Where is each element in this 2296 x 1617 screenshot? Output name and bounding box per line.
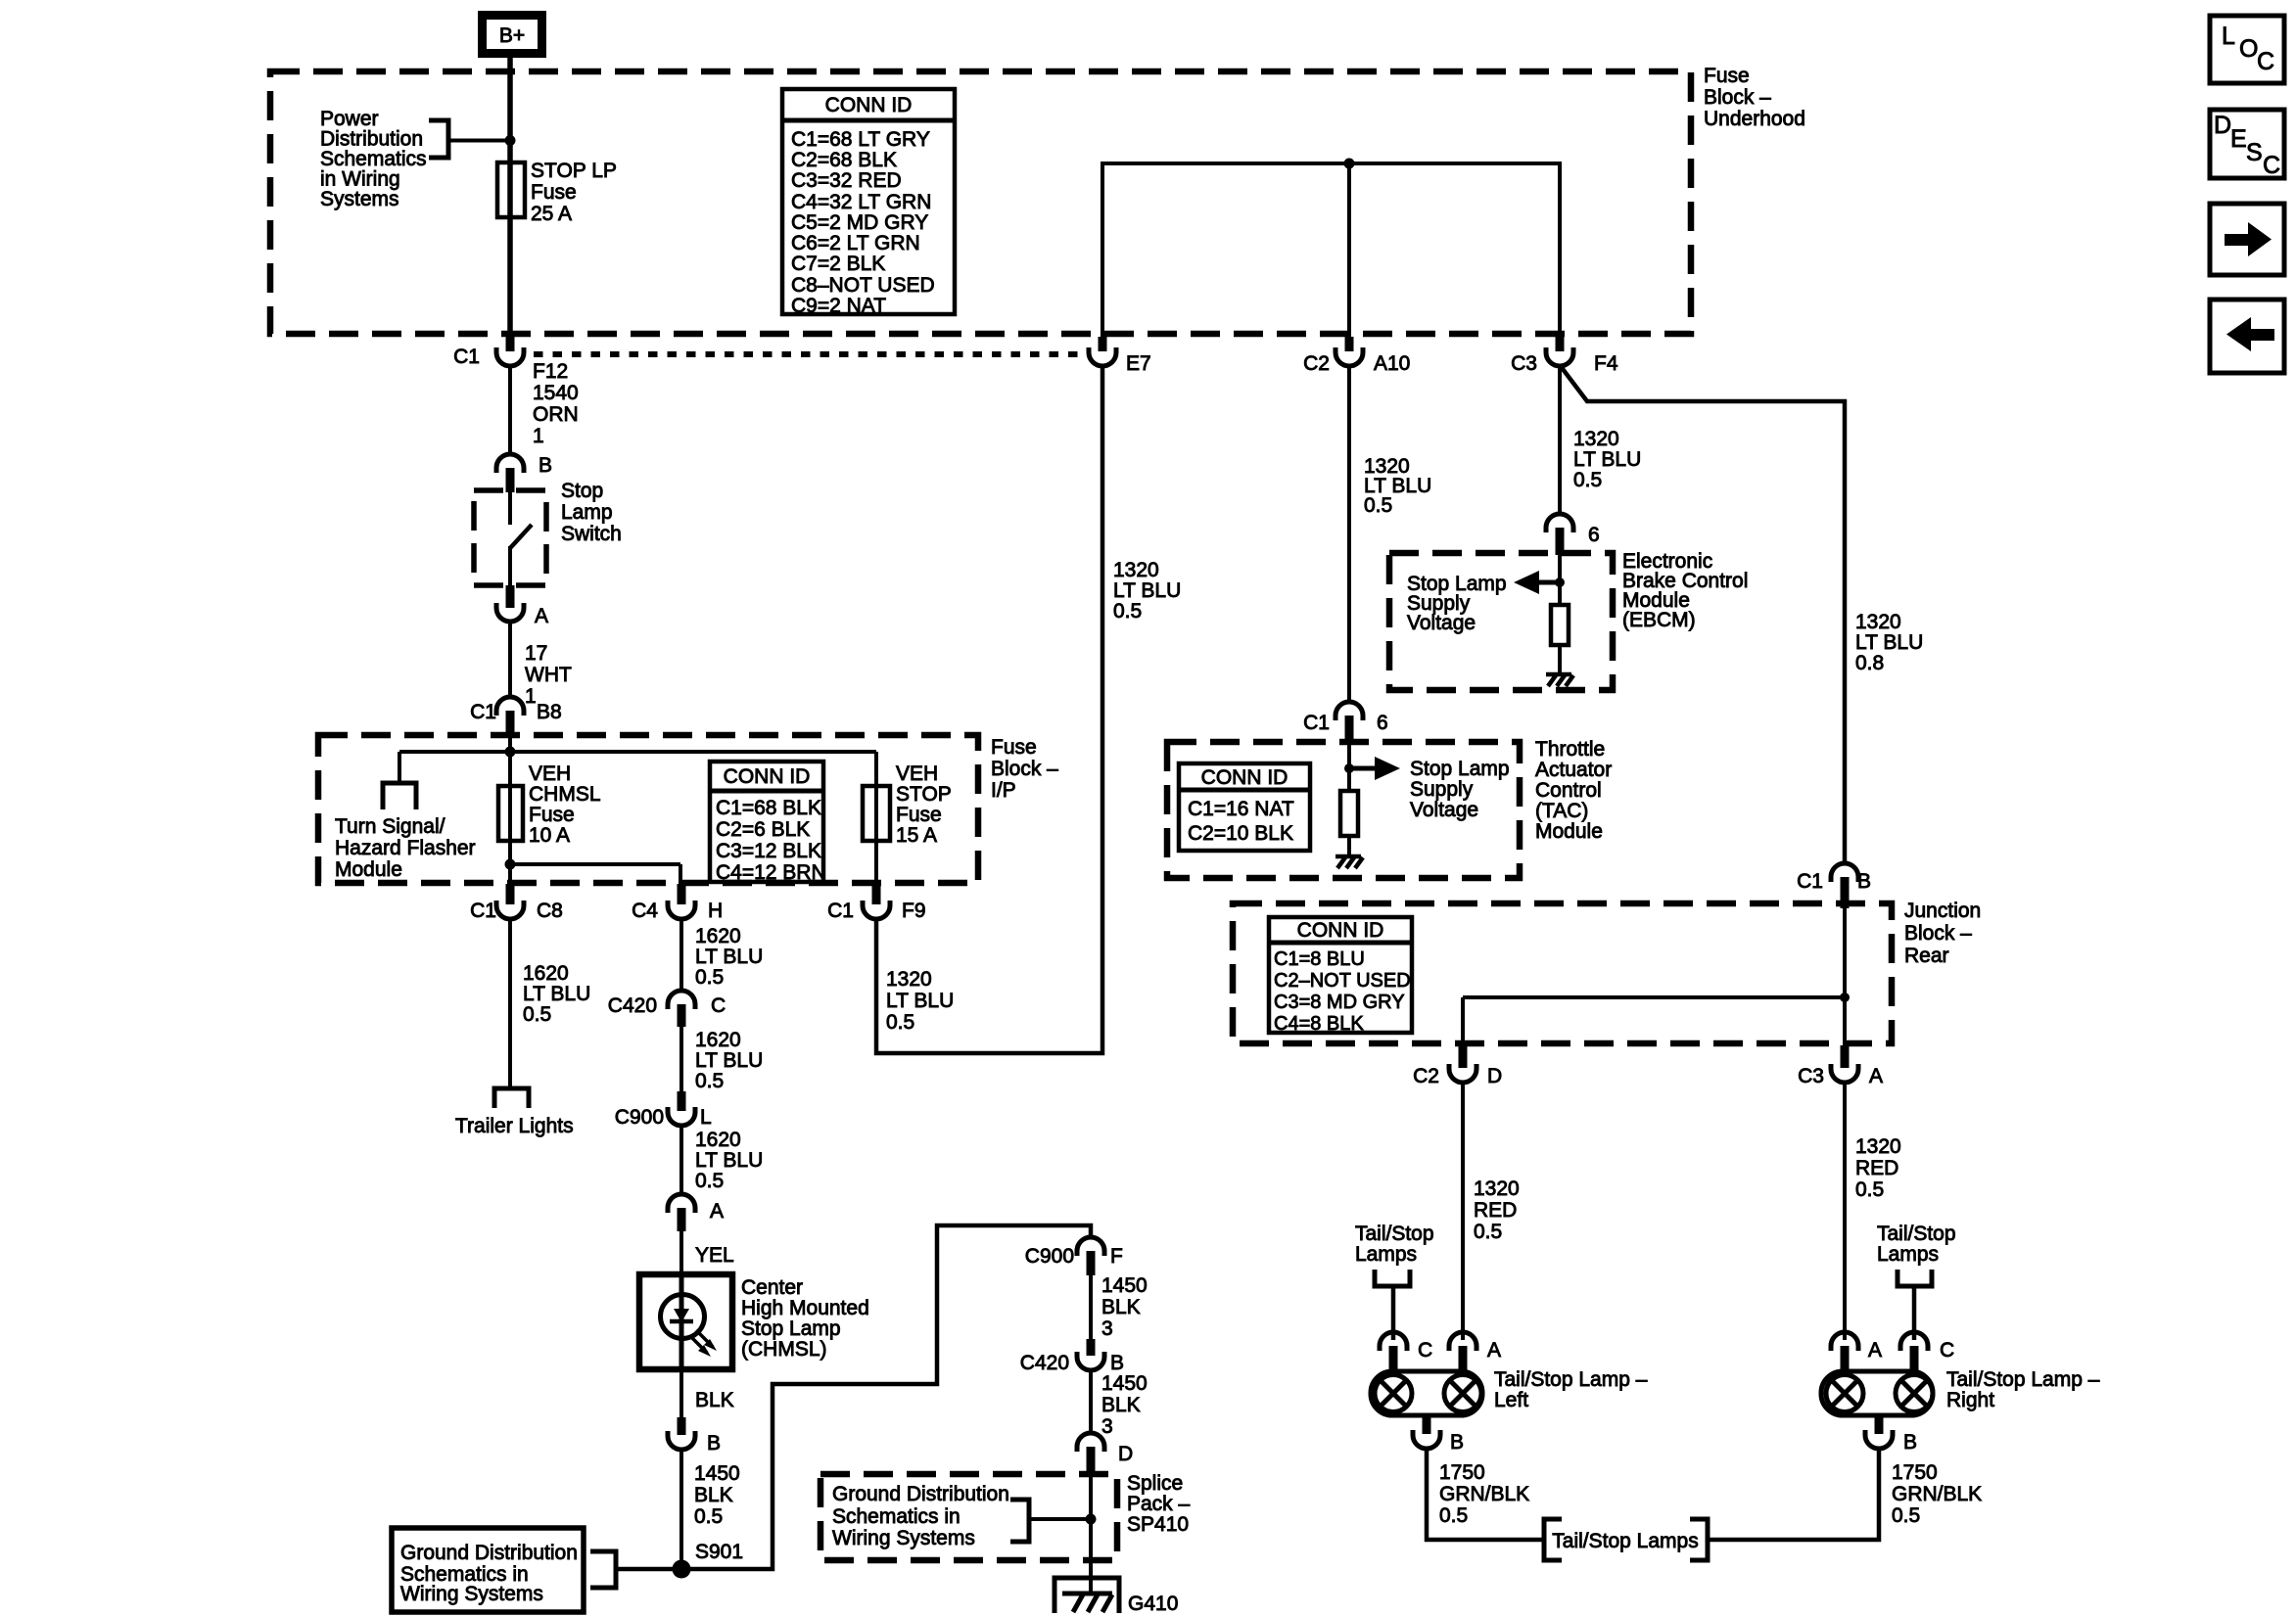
svg-text:Block –: Block – — [1704, 86, 1771, 109]
label G410 — [1128, 1593, 1178, 1615]
fuse STOP LP 25A — [497, 162, 525, 217]
svg-text:C1: C1 — [470, 701, 496, 723]
svg-text:F9: F9 — [902, 900, 926, 922]
svg-text:C1: C1 — [470, 900, 496, 922]
node junction dot below CHMSL fuse — [505, 859, 516, 870]
svg-text:LT BLU: LT BLU — [1113, 579, 1181, 602]
label Power Distribution Schematics in Wiring Systems — [320, 108, 427, 210]
svg-text:C900: C900 — [615, 1106, 664, 1129]
svg-text:0.5: 0.5 — [886, 1011, 914, 1034]
svg-text:RED: RED — [1474, 1199, 1517, 1222]
label Electronic Brake Control Module EBCM — [1622, 550, 1748, 631]
svg-text:1750: 1750 — [1892, 1461, 1938, 1484]
svg-text:C1: C1 — [453, 346, 480, 368]
svg-text:A: A — [1487, 1339, 1501, 1362]
tail stop lamps bracket right — [1898, 1270, 1932, 1340]
svg-text:Switch: Switch — [561, 523, 622, 545]
label Throttle Actuator Control TAC Module — [1535, 738, 1612, 843]
svg-text:ORN: ORN — [533, 403, 579, 426]
connector B right lamp — [1865, 1415, 1917, 1454]
svg-text:C2: C2 — [1413, 1065, 1439, 1087]
svg-text:C4=32 LT GRN: C4=32 LT GRN — [791, 191, 931, 213]
svg-text:BLK: BLK — [694, 1484, 733, 1506]
svg-text:C1: C1 — [1303, 712, 1330, 734]
svg-text:0.5: 0.5 — [695, 1070, 724, 1092]
svg-text:C4=12 BRN: C4=12 BRN — [716, 861, 826, 884]
svg-text:1540: 1540 — [533, 382, 579, 404]
svg-text:0.5: 0.5 — [1364, 494, 1392, 517]
svg-text:C5=2 MD GRY: C5=2 MD GRY — [791, 211, 928, 234]
wire junction internal — [1463, 908, 1845, 1043]
svg-text:F: F — [1110, 1245, 1123, 1268]
node splice S901 — [673, 1560, 691, 1579]
svg-text:B: B — [1450, 1431, 1464, 1454]
svg-text:Voltage: Voltage — [1407, 612, 1476, 634]
fuse block underhood dashed box — [270, 71, 1691, 334]
resistor EBCM — [1551, 605, 1569, 645]
svg-text:1620: 1620 — [695, 925, 741, 947]
svg-text:Splice: Splice — [1127, 1472, 1183, 1495]
svg-text:6: 6 — [1377, 712, 1388, 734]
tail stop lamp right — [1821, 1371, 1933, 1415]
svg-text:STOP: STOP — [896, 783, 952, 806]
label wire 1750 GRN BLK 0.5 right — [1892, 1461, 1982, 1527]
power distribution reference bracket — [429, 120, 448, 158]
svg-text:C2: C2 — [1303, 352, 1330, 375]
svg-text:1: 1 — [525, 685, 537, 708]
svg-text:15 A: 15 A — [896, 824, 937, 847]
wire TAC internal — [1347, 744, 1351, 791]
svg-text:B: B — [1903, 1431, 1917, 1454]
arrow stop lamp supply voltage EBCM — [1514, 571, 1560, 594]
svg-text:D: D — [2214, 112, 2231, 139]
CHMSL lamp box — [639, 1274, 732, 1369]
svg-text:Lamp: Lamp — [561, 501, 613, 524]
label Stop Lamp Supply Voltage EBCM — [1407, 573, 1507, 634]
svg-text:(EBCM): (EBCM) — [1622, 609, 1696, 631]
label wire 1320 RED 0.5 left — [1474, 1178, 1520, 1243]
label wire F12 1540 ORN 1 — [533, 360, 579, 447]
svg-text:Tail/Stop Lamps: Tail/Stop Lamps — [1552, 1530, 1698, 1552]
node B+ battery terminal box — [483, 16, 542, 54]
svg-text:CONN ID: CONN ID — [825, 94, 913, 116]
connector B stop lamp switch — [496, 454, 552, 492]
svg-text:LT BLU: LT BLU — [1573, 448, 1641, 471]
fuse VEH CHMSL 10A — [498, 786, 523, 841]
svg-text:C3=8 MD GRY: C3=8 MD GRY — [1274, 992, 1405, 1013]
ground EBCM — [1546, 674, 1573, 686]
svg-text:LT BLU: LT BLU — [886, 990, 954, 1012]
svg-text:Pack –: Pack – — [1127, 1493, 1191, 1515]
svg-text:Turn Signal/: Turn Signal/ — [335, 815, 445, 838]
svg-text:Block –: Block – — [991, 758, 1058, 780]
svg-text:C900: C900 — [1025, 1245, 1074, 1268]
svg-text:Wiring Systems: Wiring Systems — [832, 1527, 975, 1549]
svg-text:LT BLU: LT BLU — [523, 983, 590, 1005]
svg-text:C1: C1 — [1797, 870, 1823, 893]
svg-text:B: B — [1857, 870, 1871, 893]
svg-text:(TAC): (TAC) — [1535, 800, 1588, 822]
svg-text:Wiring Systems: Wiring Systems — [400, 1583, 543, 1605]
label Tail Stop Lamp Left — [1494, 1368, 1648, 1411]
svg-text:B8: B8 — [537, 701, 562, 723]
connector C2 A10 — [1303, 337, 1410, 375]
svg-text:C: C — [711, 994, 726, 1017]
svg-text:Control: Control — [1535, 779, 1602, 802]
svg-text:1320: 1320 — [1113, 559, 1159, 581]
nav box LOC — [2210, 16, 2284, 83]
svg-text:Tail/Stop: Tail/Stop — [1877, 1223, 1956, 1245]
wire C1 to stop lamp switch — [508, 365, 512, 456]
arrow stop lamp supply voltage TAC — [1349, 757, 1400, 780]
svg-text:LT BLU: LT BLU — [1855, 631, 1923, 654]
svg-text:C420: C420 — [608, 994, 657, 1017]
wire CHMSL to B — [679, 1369, 683, 1417]
svg-text:C2=6 BLK: C2=6 BLK — [716, 818, 810, 841]
connector C900 F — [1025, 1237, 1123, 1275]
svg-text:B: B — [539, 454, 552, 477]
svg-text:Underhood: Underhood — [1704, 108, 1805, 130]
label wire 1450 BLK 3 b — [1101, 1372, 1148, 1438]
connector C right lamp — [1900, 1332, 1954, 1373]
fuse VEH STOP 15A — [863, 786, 890, 841]
wire label box to right lamp B — [1708, 1449, 1879, 1540]
svg-text:I/P: I/P — [991, 779, 1016, 802]
label Tail Stop Lamp Right — [1946, 1368, 2100, 1411]
svg-text:B: B — [707, 1432, 721, 1455]
label Tail Stop Lamps left — [1355, 1223, 1434, 1266]
svg-text:0.5: 0.5 — [695, 1170, 724, 1192]
svg-text:B: B — [1110, 1352, 1124, 1374]
wire underhood internal bus — [1102, 163, 1560, 337]
svg-text:L: L — [700, 1106, 712, 1129]
svg-text:1320: 1320 — [1474, 1178, 1520, 1200]
svg-text:Stop: Stop — [561, 480, 603, 502]
svg-text:C1=68 LT GRY: C1=68 LT GRY — [791, 128, 930, 151]
svg-text:GRN/BLK: GRN/BLK — [1439, 1483, 1529, 1505]
wire H to C420 — [679, 919, 683, 993]
svg-text:Actuator: Actuator — [1535, 759, 1612, 781]
svg-text:S901: S901 — [695, 1541, 743, 1563]
svg-text:0.5: 0.5 — [523, 1003, 551, 1026]
wire B to S901 — [679, 1450, 683, 1569]
nav box arrow left — [2210, 300, 2284, 373]
label STOP LP Fuse 25 A — [531, 160, 617, 225]
ground distribution reference box — [392, 1528, 584, 1612]
svg-text:GRN/BLK: GRN/BLK — [1892, 1483, 1982, 1505]
tail stop lamps bracket left — [1375, 1270, 1410, 1340]
svg-text:0.5: 0.5 — [1474, 1221, 1502, 1243]
svg-text:A: A — [710, 1200, 724, 1223]
label wire 1320 LT BLU 0.5 A10 — [1364, 455, 1431, 517]
connector C3 A — [1798, 1045, 1883, 1087]
nav box DESC — [2210, 110, 2284, 179]
wire bracket to S901 — [616, 1567, 673, 1572]
wire D to left lamp — [1461, 1083, 1465, 1340]
label Fuse Block - I/P — [991, 736, 1058, 802]
svg-text:Fuse: Fuse — [896, 804, 942, 826]
ground distribution bracket splice — [1010, 1500, 1029, 1542]
wire resistor to ground EBCM — [1558, 645, 1562, 673]
label wire 1450 BLK 0.5 — [694, 1462, 740, 1528]
svg-text:C2=10 BLK: C2=10 BLK — [1188, 822, 1293, 845]
wire switch to fuse block IP — [508, 622, 512, 697]
svg-text:LT BLU: LT BLU — [695, 1149, 763, 1172]
wire A to CHMSL lamp — [679, 1231, 683, 1274]
wire left lamp B to label box — [1427, 1449, 1544, 1540]
wire CHMSL fuse to branch — [510, 864, 680, 885]
svg-text:CONN ID: CONN ID — [1297, 919, 1384, 942]
connector B left lamp — [1413, 1415, 1464, 1454]
svg-text:BLK: BLK — [1101, 1296, 1141, 1318]
connector C1 F12 — [453, 337, 524, 368]
svg-text:Fuse: Fuse — [529, 804, 575, 826]
svg-text:Systems: Systems — [320, 188, 399, 210]
wire A10 to TAC — [1347, 366, 1351, 702]
connector E7 — [1089, 337, 1151, 375]
label S901 — [695, 1541, 743, 1563]
wire C420 B to D — [1089, 1370, 1093, 1434]
svg-text:Tail/Stop: Tail/Stop — [1355, 1223, 1434, 1245]
label wire 17 WHT 1 — [525, 642, 572, 708]
connector C1 B8 — [470, 697, 562, 737]
svg-text:A10: A10 — [1374, 352, 1410, 375]
label Center High Mounted Stop Lamp CHMSL — [741, 1276, 869, 1361]
connector C420 B — [1020, 1339, 1124, 1374]
svg-text:CHMSL: CHMSL — [529, 783, 601, 806]
svg-text:10 A: 10 A — [529, 824, 570, 847]
svg-text:C7=2 BLK: C7=2 BLK — [791, 253, 885, 275]
svg-text:CONN ID: CONN ID — [724, 765, 811, 788]
svg-text:C3: C3 — [1511, 352, 1537, 375]
svg-text:0.5: 0.5 — [695, 966, 724, 989]
svg-text:C2=68 BLK: C2=68 BLK — [791, 149, 897, 171]
svg-text:3: 3 — [1101, 1317, 1113, 1340]
svg-text:YEL: YEL — [695, 1244, 734, 1267]
node dot EBCM — [1555, 577, 1565, 587]
wire EBCM internal — [1558, 554, 1562, 605]
svg-text:F12: F12 — [533, 360, 568, 383]
connector C1 B junction — [1797, 863, 1871, 908]
svg-text:Lamps: Lamps — [1877, 1243, 1939, 1266]
svg-text:0.5: 0.5 — [694, 1505, 723, 1528]
svg-text:C9=2 NAT: C9=2 NAT — [791, 295, 886, 317]
label wire 1320 RED 0.5 right — [1855, 1135, 1901, 1201]
svg-text:Lamps: Lamps — [1355, 1243, 1417, 1266]
svg-text:Right: Right — [1946, 1389, 1994, 1411]
svg-text:C1=16 NAT: C1=16 NAT — [1188, 798, 1294, 820]
svg-text:Ground Distribution: Ground Distribution — [400, 1542, 578, 1564]
svg-text:Module: Module — [335, 858, 402, 881]
wire F4 branch to junction block — [1560, 365, 1845, 863]
connector A left lamp — [1449, 1332, 1501, 1373]
wire F4 to EBCM — [1558, 366, 1562, 514]
svg-text:C3: C3 — [1798, 1065, 1824, 1087]
svg-text:C3=12 BLK: C3=12 BLK — [716, 840, 821, 862]
svg-text:1320: 1320 — [1573, 428, 1619, 450]
svg-text:Throttle: Throttle — [1535, 738, 1605, 761]
svg-text:LT BLU: LT BLU — [695, 946, 763, 968]
svg-text:F4: F4 — [1594, 352, 1618, 375]
svg-text:C2–NOT USED: C2–NOT USED — [1274, 970, 1411, 992]
label wire 1320 LT BLU 0.5 F4 — [1573, 428, 1641, 491]
wire dotted connector alignment line — [534, 351, 1089, 357]
splice pack dashed box — [820, 1474, 1117, 1560]
svg-text:C3=32 RED: C3=32 RED — [791, 169, 902, 192]
svg-text:Stop Lamp: Stop Lamp — [1410, 758, 1510, 780]
svg-text:C1: C1 — [827, 900, 854, 922]
svg-text:BLK: BLK — [1101, 1394, 1141, 1416]
svg-text:1620: 1620 — [695, 1029, 741, 1051]
node splice dot SP410 — [1086, 1514, 1097, 1525]
connector C4 H — [632, 884, 723, 922]
svg-text:O: O — [2239, 35, 2258, 63]
svg-text:C8–NOT USED: C8–NOT USED — [791, 274, 935, 297]
ground G410 — [1054, 1578, 1119, 1613]
label Junction Block - Rear — [1904, 900, 1981, 967]
svg-text:Stop Lamp: Stop Lamp — [741, 1317, 841, 1340]
connector 6 EBCM — [1546, 514, 1600, 555]
conn id table junction — [1269, 917, 1412, 1035]
connector C420 C — [608, 991, 726, 1027]
wire S901 to C900 F — [690, 1225, 1091, 1569]
wire resistor to ground TAC — [1347, 836, 1351, 855]
wire F9 to E7 loop — [876, 366, 1102, 1053]
wire B+ to fuse — [507, 58, 513, 337]
label wire 1450 BLK 3 a — [1101, 1274, 1148, 1340]
wire to power distribution bracket — [448, 139, 510, 143]
trailer lights bracket — [494, 1088, 529, 1108]
label Stop Lamp Supply Voltage TAC — [1410, 758, 1510, 821]
label wire 1320 LT BLU 0.8 — [1855, 611, 1923, 674]
connector C1 F9 — [827, 884, 925, 922]
svg-text:1620: 1620 — [695, 1129, 741, 1151]
label Tail Stop Lamps right — [1877, 1223, 1956, 1266]
label Fuse Block - Underhood — [1704, 65, 1805, 130]
wire D to G410 — [1089, 1476, 1093, 1594]
svg-text:LT BLU: LT BLU — [695, 1049, 763, 1072]
svg-text:WHT: WHT — [525, 664, 572, 686]
label wire 1620 LT BLU 0.5 trailer — [523, 962, 590, 1026]
svg-text:1: 1 — [533, 425, 544, 447]
svg-text:25 A: 25 A — [531, 203, 572, 225]
svg-text:1450: 1450 — [1101, 1274, 1148, 1297]
label wire 1320 LT BLU 0.5 F9 — [886, 968, 954, 1034]
connector C1 C8 — [470, 884, 563, 922]
wire A to right lamp — [1843, 1083, 1847, 1340]
svg-text:SP410: SP410 — [1127, 1513, 1189, 1536]
wire F to C420 B — [1089, 1275, 1093, 1341]
wire C420 to C900 — [679, 1027, 683, 1095]
connector D splice — [1077, 1433, 1133, 1476]
svg-text:RED: RED — [1855, 1157, 1898, 1179]
svg-text:Module: Module — [1535, 820, 1603, 843]
wire C8 to trailer lights — [508, 919, 512, 1086]
svg-text:E: E — [2230, 125, 2247, 153]
svg-text:BLK: BLK — [695, 1389, 734, 1411]
node junction dot on B+ wire — [505, 135, 516, 146]
wire IP internal bus — [399, 737, 876, 885]
svg-text:0.5: 0.5 — [1439, 1504, 1468, 1527]
ground TAC — [1335, 856, 1363, 868]
svg-text:17: 17 — [525, 642, 547, 665]
svg-text:Fuse: Fuse — [1704, 65, 1750, 87]
svg-text:G410: G410 — [1128, 1593, 1178, 1615]
connector A stop lamp switch — [496, 585, 548, 627]
conn id table TAC — [1179, 763, 1310, 851]
label wire 1320 LT BLU 0.5 E7 — [1113, 559, 1181, 623]
svg-text:C8: C8 — [537, 900, 563, 922]
TAC dashed box — [1167, 742, 1520, 878]
EBCM dashed box — [1389, 553, 1613, 690]
label VEH CHMSL Fuse 10 A — [529, 762, 601, 847]
label Stop Lamp Switch — [561, 480, 622, 545]
conn id table IP — [710, 762, 826, 884]
node dot TAC — [1344, 763, 1354, 773]
connector B CHMSL — [668, 1417, 721, 1455]
nav box arrow right — [2210, 204, 2284, 275]
svg-text:(CHMSL): (CHMSL) — [741, 1338, 827, 1361]
node dot junction — [1840, 993, 1850, 1002]
svg-text:C: C — [1418, 1339, 1432, 1362]
svg-text:0.5: 0.5 — [1113, 600, 1142, 623]
turn signal module bracket — [383, 783, 416, 809]
label wire YEL — [695, 1244, 734, 1267]
label wire BLK — [695, 1389, 734, 1411]
svg-text:6: 6 — [1588, 524, 1600, 546]
svg-text:Tail/Stop Lamp –: Tail/Stop Lamp – — [1494, 1368, 1648, 1391]
svg-text:Center: Center — [741, 1276, 803, 1299]
svg-text:D: D — [1118, 1443, 1133, 1465]
svg-text:1450: 1450 — [694, 1462, 740, 1485]
wire C900 to A — [679, 1126, 683, 1194]
label Splice Pack - SP410 — [1127, 1472, 1191, 1536]
fuse block IP dashed box — [318, 735, 978, 883]
svg-text:L: L — [2222, 23, 2235, 50]
connector C3 F4 — [1511, 337, 1618, 375]
stop lamp switch dashed box — [474, 490, 546, 585]
svg-text:C: C — [1940, 1339, 1954, 1362]
svg-text:3: 3 — [1101, 1415, 1113, 1438]
CHMSL lamp symbol — [661, 1295, 718, 1358]
svg-text:Voltage: Voltage — [1410, 799, 1478, 821]
label ground distribution schematics dashed — [832, 1483, 1009, 1549]
svg-text:C1=68 BLK: C1=68 BLK — [716, 797, 821, 819]
svg-text:A: A — [1868, 1339, 1882, 1362]
svg-text:VEH: VEH — [529, 762, 571, 785]
label wire 1620 LT BLU 0.5 a — [695, 925, 763, 989]
connector C900 L — [615, 1091, 712, 1129]
junction block dashed box — [1233, 903, 1892, 1043]
svg-text:Schematics in: Schematics in — [832, 1505, 961, 1528]
svg-text:Tail/Stop Lamp –: Tail/Stop Lamp – — [1946, 1368, 2100, 1391]
connector C2 D — [1413, 1045, 1502, 1087]
tail stop lamps label box — [1544, 1519, 1708, 1560]
svg-text:0.5: 0.5 — [1855, 1178, 1884, 1201]
svg-text:1620: 1620 — [523, 962, 569, 985]
svg-text:C4=8 BLK: C4=8 BLK — [1274, 1013, 1364, 1035]
connector C1 6 TAC — [1303, 702, 1388, 745]
svg-text:0.5: 0.5 — [1573, 469, 1602, 491]
svg-text:0.5: 0.5 — [1892, 1504, 1920, 1527]
svg-text:B+: B+ — [499, 24, 525, 47]
wire bracket to splice — [1029, 1517, 1091, 1521]
svg-text:H: H — [708, 900, 723, 922]
svg-text:Ground Distribution: Ground Distribution — [832, 1483, 1009, 1505]
svg-text:STOP LP: STOP LP — [531, 160, 617, 182]
tail stop lamp left — [1371, 1371, 1482, 1415]
svg-text:D: D — [1487, 1065, 1502, 1087]
